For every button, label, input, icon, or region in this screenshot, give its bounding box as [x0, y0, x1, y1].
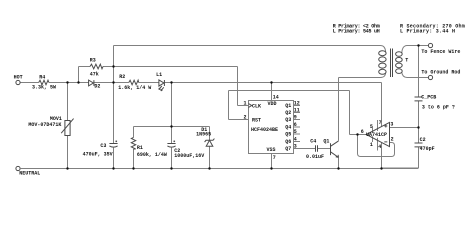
svg-text:R4: R4	[39, 74, 45, 80]
svg-text:MOV1: MOV1	[50, 116, 62, 122]
svg-text:6: 6	[294, 122, 297, 128]
svg-text:690k, 1/4W: 690k, 1/4W	[137, 152, 167, 158]
svg-text:3.3k, 5W: 3.3k, 5W	[32, 85, 56, 91]
svg-text:47k: 47k	[90, 72, 99, 78]
svg-text:VDD: VDD	[268, 101, 277, 107]
svg-text:470uF, 35V: 470uF, 35V	[83, 151, 113, 157]
svg-text:C2: C2	[420, 137, 426, 143]
svg-text:3 to 6 pF ?: 3 to 6 pF ?	[422, 104, 455, 110]
svg-text:1000uF,16V: 1000uF,16V	[174, 153, 204, 159]
svg-text:Q5: Q5	[285, 132, 291, 138]
svg-text:L Primary: 545 uH: L Primary: 545 uH	[333, 29, 380, 35]
svg-text:Q2: Q2	[285, 110, 291, 116]
svg-text:HCF4024BE: HCF4024BE	[251, 127, 278, 133]
svg-text:3: 3	[294, 144, 297, 150]
svg-text:D2: D2	[94, 83, 100, 89]
svg-text:C_PCB: C_PCB	[421, 95, 436, 101]
svg-text:9: 9	[294, 115, 297, 121]
svg-text:R1: R1	[137, 145, 143, 151]
svg-text:6: 6	[361, 129, 364, 135]
svg-text:Q1: Q1	[285, 103, 291, 109]
svg-text:Q4: Q4	[285, 125, 291, 131]
svg-text:0.01uF: 0.01uF	[306, 154, 324, 160]
svg-text:L1: L1	[156, 72, 162, 78]
svg-text:Q6: Q6	[285, 139, 291, 145]
svg-text:2: 2	[244, 114, 247, 120]
svg-text:C3: C3	[100, 143, 106, 149]
svg-text:1.6k, 1/4 W: 1.6k, 1/4 W	[118, 85, 151, 91]
svg-text:NEUTRAL: NEUTRAL	[19, 170, 40, 176]
svg-text:To Ground Rod: To Ground Rod	[421, 69, 460, 75]
svg-text:VSS: VSS	[267, 147, 276, 153]
svg-text:11: 11	[294, 108, 300, 114]
svg-text:4: 4	[294, 137, 297, 143]
svg-text:L Primary: 3.44 H: L Primary: 3.44 H	[400, 29, 455, 35]
svg-text:1N965: 1N965	[196, 132, 211, 138]
svg-text:R3: R3	[90, 57, 96, 63]
svg-text:R2: R2	[119, 74, 125, 80]
svg-text:MOV-07D471K: MOV-07D471K	[28, 122, 61, 128]
svg-text:Q7: Q7	[285, 146, 291, 152]
svg-text:14: 14	[273, 94, 279, 100]
svg-text:UA741CP: UA741CP	[366, 132, 387, 138]
svg-text:470pF: 470pF	[420, 146, 435, 152]
svg-text:HOT: HOT	[14, 75, 23, 81]
svg-text:5: 5	[294, 129, 297, 135]
svg-text:7: 7	[273, 155, 276, 161]
svg-text:12: 12	[294, 101, 300, 107]
svg-text:7: 7	[379, 120, 382, 126]
svg-text:Q3: Q3	[285, 117, 291, 123]
svg-text:T: T	[405, 57, 408, 63]
svg-text:Q1: Q1	[323, 138, 329, 144]
svg-text:4: 4	[378, 144, 381, 150]
svg-text:5: 5	[370, 124, 373, 130]
svg-text:CLK: CLK	[252, 104, 261, 110]
svg-text:C4: C4	[310, 138, 316, 144]
svg-text:1: 1	[370, 142, 373, 148]
svg-text:2: 2	[391, 137, 394, 143]
svg-text:3: 3	[390, 122, 393, 128]
svg-text:RST: RST	[252, 117, 261, 123]
svg-text:1: 1	[244, 100, 247, 106]
svg-text:To Fence Wire: To Fence Wire	[421, 49, 460, 55]
